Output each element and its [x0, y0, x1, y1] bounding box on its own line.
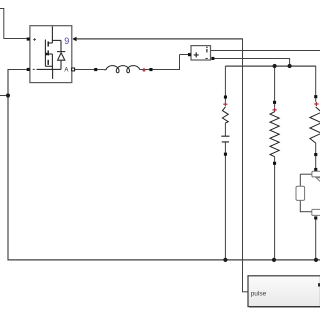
svg-text:pulse: pulse — [251, 291, 267, 298]
svg-text:9: 9 — [64, 36, 69, 46]
svg-text:A: A — [64, 67, 68, 73]
